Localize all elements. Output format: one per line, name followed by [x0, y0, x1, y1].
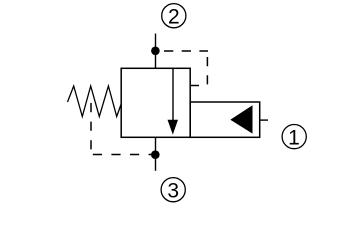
pilot line dashed horizontal: [164, 50, 208, 52]
pilot line dashed vertical: [206, 57, 208, 86]
valve body: [121, 68, 190, 137]
pilot stub: [190, 85, 199, 87]
pilot triangle: [230, 105, 252, 133]
port 1 stub: [260, 119, 269, 121]
node junction port 2: [151, 47, 160, 56]
flow arrow: [168, 68, 179, 135]
drain dashed horizontal: [93, 154, 151, 156]
svg-text:1: 1: [288, 127, 300, 150]
drain dashed vertical: [90, 103, 92, 150]
port label circle 1: [282, 125, 306, 150]
node junction port 3: [151, 150, 160, 159]
svg-text:3: 3: [167, 180, 179, 203]
wire port 3: [155, 137, 157, 171]
pilot actuator box: [190, 102, 260, 137]
port label circle 3: [161, 178, 185, 203]
svg-text:2: 2: [168, 6, 180, 29]
port label circle 2: [162, 4, 186, 29]
spring: [68, 86, 122, 117]
wire port 2: [155, 34, 157, 69]
